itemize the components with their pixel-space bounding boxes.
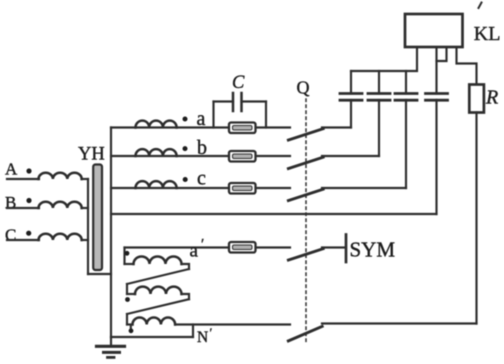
- wire neutral riser to capacitor C4: [435, 100, 437, 214]
- wire line c after switch: [322, 187, 406, 189]
- relay KL right pin to resistor R: [457, 49, 477, 85]
- fuse FU4 open delta line: [229, 242, 256, 253]
- wire diagonal winding 2 to winding 3: [127, 299, 189, 314]
- ground: [110, 337, 112, 345]
- wire phase A to primary bus: [82, 178, 89, 180]
- capacitor C left lead: [214, 100, 234, 102]
- switch blade line c: [287, 189, 325, 201]
- wire open delta top left corner: [123, 248, 125, 265]
- polarity dot b: [183, 146, 188, 151]
- polarity dot open delta winding 1: [125, 251, 130, 256]
- polarity dot open delta winding 2: [125, 297, 130, 302]
- wire N' line after switch to resistor R: [322, 322, 477, 324]
- svg-text:Q: Q: [297, 78, 310, 98]
- wire lead winding 3: [127, 323, 133, 325]
- wire ground link riser to N' line: [192, 325, 194, 338]
- secondary winding a: [136, 121, 177, 128]
- wire ground link: [111, 336, 193, 338]
- wire secondary line a: [111, 126, 290, 128]
- wire winding 3 left drop: [126, 314, 128, 325]
- wire phase A lead: [7, 178, 39, 180]
- wire line b after switch: [322, 155, 379, 157]
- wire capacitor C1 top lead: [350, 71, 352, 94]
- wire winding 2 left drop: [126, 284, 128, 294]
- wire secondary neutral bus: [110, 128, 112, 338]
- switch blade N' line: [287, 326, 324, 342]
- wire phase B to primary bus: [82, 207, 89, 209]
- switch blade line a: [287, 128, 325, 140]
- wire winding 3 to node N': [175, 323, 290, 325]
- polarity dot phase C: [26, 231, 31, 236]
- capacitor C plates: [233, 93, 242, 111]
- switch blade open delta line: [287, 248, 325, 260]
- capacitor C1: [340, 94, 362, 101]
- fuse FU3 line c: [229, 183, 256, 194]
- SYM contact bar: [345, 235, 348, 263]
- wire winding 1 right elbow: [182, 264, 190, 269]
- svg-text:KL: KL: [474, 23, 501, 45]
- open delta top wire to node a': [125, 246, 291, 248]
- capacitor C parallel bracket left riser: [212, 102, 214, 128]
- open delta winding 1: [134, 257, 182, 265]
- svg-text:a: a: [190, 241, 199, 262]
- polarity dot c: [183, 177, 188, 182]
- wire resistor R bottom lead: [475, 113, 477, 324]
- wire open delta line after switch: [322, 246, 345, 248]
- wire riser line a to capacitor C1: [350, 100, 352, 128]
- resistor R: [469, 85, 484, 113]
- capacitor C2: [368, 94, 390, 101]
- svg-text:B: B: [5, 193, 16, 212]
- disconnector Q dashed gang line: [305, 99, 307, 343]
- wire diagonal winding 1 to winding 2: [127, 269, 189, 284]
- wire secondary line c: [111, 187, 290, 189]
- svg-text:N: N: [197, 329, 208, 346]
- capacitor C right lead: [242, 100, 267, 102]
- wire phase C lead: [7, 239, 39, 241]
- svg-text:C: C: [232, 73, 245, 93]
- fuse FU1 line a: [229, 123, 256, 134]
- stray tick mark top right: [479, 3, 482, 9]
- relay KL box: [405, 14, 463, 47]
- wire line a after switch: [322, 126, 351, 128]
- capacitor C3: [395, 94, 417, 101]
- wire capacitor C4 lead to relay KL: [435, 49, 437, 94]
- wire winding 3 polarity stub: [130, 325, 132, 330]
- wire phase B lead: [7, 207, 39, 209]
- wire secondary neutral line: [111, 213, 437, 215]
- open delta winding 2: [135, 287, 182, 294]
- wire capacitor C3 top lead: [405, 71, 407, 94]
- wire lead winding 2: [127, 293, 135, 295]
- capacitor C right riser: [265, 102, 267, 128]
- relay KL pin notch: [437, 49, 447, 62]
- svg-text:A: A: [5, 160, 18, 179]
- polarity dot open delta winding 3: [129, 328, 134, 333]
- fuse FU2 line b: [229, 151, 256, 162]
- wire capacitor C2 top lead: [378, 71, 380, 94]
- transformer YH core: [93, 165, 102, 271]
- polarity dot a: [183, 117, 188, 122]
- switch blade line b: [287, 157, 325, 169]
- svg-text:YH: YH: [78, 145, 105, 165]
- svg-text:C: C: [5, 226, 16, 245]
- svg-text:′: ′: [201, 237, 204, 253]
- polarity dot phase B: [26, 198, 31, 203]
- primary winding phase B: [39, 202, 82, 208]
- svg-text:R: R: [485, 87, 498, 109]
- wire primary neutral jog to ground bus: [88, 273, 111, 275]
- wire capacitor header to relay KL: [351, 49, 417, 72]
- primary winding phase A: [39, 173, 82, 179]
- wire secondary line b: [111, 155, 290, 157]
- wire lead winding 1: [125, 263, 134, 265]
- wire phase C to primary bus: [82, 239, 89, 241]
- secondary winding c: [136, 181, 177, 188]
- secondary winding b: [136, 149, 177, 156]
- capacitor C4: [426, 94, 448, 101]
- wire winding 2 right elbow: [182, 294, 190, 299]
- svg-text:b: b: [197, 137, 207, 159]
- primary winding phase C: [39, 234, 82, 240]
- svg-text:c: c: [197, 168, 206, 190]
- svg-text:SYM: SYM: [350, 238, 396, 262]
- wire riser line c to capacitor C3: [405, 100, 407, 188]
- polarity dot phase A: [26, 168, 31, 173]
- wire primary neutral bus: [87, 179, 89, 274]
- open delta winding 3: [133, 318, 176, 325]
- wire riser line b to capacitor C2: [378, 100, 380, 156]
- svg-text:′: ′: [210, 325, 213, 340]
- svg-text:a: a: [197, 108, 206, 130]
